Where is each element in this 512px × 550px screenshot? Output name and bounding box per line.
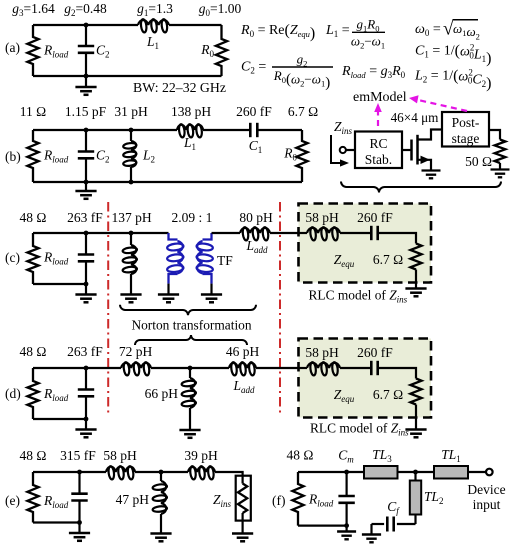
capacitor Cf row f — [372, 517, 416, 532]
capacitor Cm row f — [338, 472, 354, 526]
ground row a — [75, 76, 96, 95]
value labels row b — [20, 104, 318, 119]
TL2 transmission line — [410, 472, 421, 524]
ground row c box — [405, 289, 426, 297]
capacitor 263fF row c — [78, 233, 94, 284]
nodes row f — [344, 470, 418, 528]
svg-text:(b): (b) — [5, 149, 21, 164]
ground TF primary — [158, 284, 179, 303]
svg-text:TF: TF — [217, 253, 233, 268]
Zins probe arrow — [331, 135, 349, 167]
resistor R0 row a — [216, 25, 227, 76]
svg-text:260 fF: 260 fF — [236, 104, 272, 119]
equation C2 — [241, 52, 333, 92]
svg-text:(f): (f) — [272, 493, 286, 508]
svg-text:260 fF: 260 fF — [357, 210, 393, 225]
inductor 39pH row e — [188, 466, 215, 480]
svg-text:Post-: Post- — [452, 115, 480, 130]
inductor L2 row b shunt — [123, 130, 137, 182]
label (d) — [5, 386, 21, 401]
resistor Rload row c — [27, 233, 38, 284]
brace under row c (Norton) — [120, 305, 256, 315]
svg-text:48 Ω: 48 Ω — [287, 448, 314, 463]
svg-text:g0=1.00: g0=1.00 — [199, 1, 242, 18]
value labels row d — [20, 344, 260, 359]
label 50ohm — [465, 154, 492, 169]
device input terminal — [486, 469, 493, 476]
labels in box row c — [305, 210, 393, 225]
svg-text:58 pH: 58 pH — [305, 345, 339, 360]
transformer TF secondary — [196, 233, 213, 284]
nodes row c — [84, 231, 134, 287]
capacitor C2 row a — [78, 25, 94, 76]
capacitor C1 row b — [250, 123, 257, 137]
svg-text:66 pH: 66 pH — [145, 386, 179, 401]
equation L2 — [414, 68, 491, 92]
label 47pH row e — [116, 492, 150, 507]
inductor Ladd row c — [240, 227, 270, 241]
label Ladd row c — [245, 238, 268, 255]
wire cap to res row d — [378, 368, 416, 379]
RC Stab box — [355, 132, 402, 169]
equation R0 — [240, 22, 315, 42]
inductor 66pH shunt row d — [181, 368, 196, 430]
label Zequ row c — [334, 252, 355, 269]
label C1 row b — [249, 138, 263, 155]
label Zins row b — [334, 119, 353, 136]
capacitor 260fF row c — [371, 226, 377, 240]
label Ladd row d — [232, 378, 255, 395]
value labels row e — [20, 448, 218, 463]
label TF — [217, 253, 233, 268]
ground row d box — [405, 430, 426, 438]
svg-text:58 pH: 58 pH — [305, 210, 339, 225]
svg-text:1.15 pF: 1.15 pF — [65, 104, 107, 119]
wire top row a — [33, 24, 222, 26]
wire coil to cap row d — [340, 367, 371, 369]
svg-text:6.7 Ω: 6.7 Ω — [373, 387, 403, 402]
label Rload row b — [43, 148, 69, 165]
label 46x4um — [391, 110, 440, 125]
svg-text:RLC model of Zins: RLC model of Zins — [310, 421, 409, 438]
svg-text:11 Ω: 11 Ω — [20, 104, 46, 119]
RC Stab text — [365, 136, 392, 167]
red dashdot line left — [107, 202, 109, 416]
inductor 58pH row d — [307, 362, 340, 376]
resistor Rload row d — [27, 368, 38, 419]
label L2 row b — [142, 148, 155, 165]
label R0 row a — [200, 42, 214, 59]
inductor 47pH shunt row e — [152, 472, 167, 534]
capacitor 263fF row d — [78, 368, 94, 419]
svg-text:RC: RC — [369, 136, 387, 151]
svg-text:137 pH: 137 pH — [111, 210, 151, 225]
svg-text:Device: Device — [467, 482, 505, 497]
label (b) — [5, 149, 21, 164]
label RLC model row d — [310, 421, 409, 438]
wire bottom row a — [33, 75, 222, 77]
wire bottom row d — [33, 418, 86, 420]
label Rload row f — [308, 492, 334, 509]
label Rload row d — [43, 386, 69, 403]
value labels row f — [287, 447, 461, 465]
svg-text:315 fF: 315 fF — [60, 448, 96, 463]
wire row c to box — [270, 232, 299, 234]
svg-text:BW: 22–32 GHz: BW: 22–32 GHz — [133, 80, 226, 95]
wire in box row c — [299, 232, 308, 234]
svg-text:260 fF: 260 fF — [357, 345, 393, 360]
ground 66pH — [179, 430, 200, 438]
svg-text:g3=1.64: g3=1.64 — [12, 1, 55, 18]
svg-text:48 Ω: 48 Ω — [20, 448, 47, 463]
inductor 58pH row c — [307, 227, 340, 241]
nodes row b — [84, 128, 134, 185]
wire res to ground row c — [415, 270, 417, 289]
resistor Rload row b — [27, 130, 38, 182]
svg-text:48 Ω: 48 Ω — [20, 210, 47, 225]
svg-text:6.7 Ω: 6.7 Ω — [288, 104, 318, 119]
capacitor 260fF row d — [371, 361, 377, 375]
svg-text:g1=1.3: g1=1.3 — [137, 1, 173, 18]
wire bottom row c — [33, 283, 86, 285]
svg-text:58 pH: 58 pH — [103, 448, 137, 463]
nodes row e — [77, 470, 163, 525]
value labels row c — [20, 210, 273, 225]
label Rload row c — [43, 250, 69, 267]
ground Zins row e — [232, 521, 253, 542]
svg-text:Norton transformation: Norton transformation — [131, 318, 251, 333]
resistor 50ohm — [495, 140, 506, 164]
wire top row e — [33, 472, 243, 476]
magenta arrow vertical — [374, 103, 382, 126]
wire post-stage to 50ohm — [489, 130, 500, 140]
magenta arrow diagonal — [409, 95, 467, 111]
wire top row d — [33, 367, 299, 369]
transistor M1 channel — [416, 135, 419, 165]
svg-text:stage: stage — [452, 131, 480, 146]
wire top row b — [33, 129, 302, 131]
label (f) — [272, 493, 286, 508]
svg-text:(d): (d) — [5, 386, 21, 401]
node row a bottom — [84, 74, 89, 79]
label Norton transformation — [131, 318, 251, 333]
ground 137pH — [120, 295, 141, 303]
equation C1 — [415, 43, 491, 67]
label (c) — [5, 250, 20, 265]
svg-text:31 pH: 31 pH — [114, 104, 148, 119]
capacitor 315fF row e — [71, 472, 87, 523]
red dashdot line right — [279, 202, 281, 416]
resistor Rload row e — [27, 472, 38, 523]
transformer TF primary — [167, 233, 184, 284]
svg-text:input: input — [473, 497, 501, 512]
svg-text:80 pH: 80 pH — [239, 210, 273, 225]
transistor M1 source — [418, 156, 432, 170]
label L1 row a — [146, 34, 159, 51]
label Cf — [387, 499, 400, 516]
svg-text:(a): (a) — [5, 40, 20, 55]
wire top row c — [33, 232, 169, 234]
Post-stage box — [442, 112, 489, 147]
TL1 transmission line — [434, 466, 468, 479]
svg-text:Stab.: Stab. — [365, 152, 392, 167]
svg-text:6.7 Ω: 6.7 Ω — [373, 252, 403, 267]
equation Rload — [341, 64, 406, 80]
label Rload row a — [43, 43, 69, 60]
brace over row d (Norton) — [135, 335, 247, 345]
label 6.7ohm row d — [373, 387, 403, 402]
RLC dashed box row c — [299, 204, 432, 283]
RLC dashed box row d — [299, 339, 432, 418]
inductor 72pH row d — [121, 362, 151, 376]
ground TF secondary — [201, 284, 222, 303]
Post-stage text — [452, 115, 480, 146]
label C2 row b — [96, 148, 110, 165]
svg-text:263 fF: 263 fF — [67, 210, 103, 225]
brace under emModel block — [341, 182, 501, 193]
svg-text:138 pH: 138 pH — [171, 104, 211, 119]
svg-text:ω2−ω1: ω2−ω1 — [351, 33, 385, 50]
node row a top — [84, 23, 89, 28]
ground 50ohm — [491, 163, 510, 177]
svg-text:48 Ω: 48 Ω — [20, 344, 47, 359]
nodes row d — [84, 366, 193, 422]
label R0 row b — [283, 146, 297, 163]
svg-text:263 fF: 263 fF — [67, 344, 103, 359]
svg-text:g2=0.48: g2=0.48 — [64, 1, 107, 18]
svg-text:(e): (e) — [5, 493, 20, 508]
inductor 46pH row d — [229, 362, 256, 376]
ground row c load — [75, 284, 96, 302]
ground transistor source — [422, 170, 441, 178]
label Zins row e — [213, 492, 232, 509]
label L1 row b — [183, 135, 196, 152]
svg-text:46 pH: 46 pH — [226, 344, 260, 359]
svg-text:39 pH: 39 pH — [184, 448, 218, 463]
resistor 6.7ohm row c — [410, 244, 421, 270]
wire bottom row f — [298, 524, 347, 526]
equation L1 — [325, 17, 385, 51]
wire coil to cap row c — [340, 232, 371, 234]
inductor 58pH row e — [106, 466, 135, 480]
resistor Rload row a — [27, 25, 38, 76]
svg-text:50 Ω: 50 Ω — [465, 154, 492, 169]
label RLC model row c — [309, 288, 408, 305]
svg-text:72 pH: 72 pH — [119, 344, 153, 359]
inductor L1 row b — [177, 124, 203, 138]
label Rload row e — [43, 493, 69, 510]
svg-text:2.09 : 1: 2.09 : 1 — [172, 210, 213, 225]
equation omega0 — [415, 18, 480, 41]
wire res to ground row d — [415, 405, 417, 430]
label 66pH row d — [145, 386, 179, 401]
transistor M1 gate — [402, 140, 412, 161]
Zins box row e — [236, 476, 251, 521]
label TL2 — [424, 489, 444, 506]
g-parameter labels g3 g2 g1 g0 — [12, 1, 241, 18]
transistor M1 drain — [418, 130, 443, 140]
resistor 6.7ohm row d — [410, 379, 421, 405]
ground row e load — [69, 523, 90, 541]
ground Cf — [362, 524, 381, 542]
svg-text:RLC model of Zins: RLC model of Zins — [309, 288, 408, 305]
TL3 transmission line — [364, 466, 398, 479]
wire top row f — [298, 471, 486, 473]
wire in box row d — [299, 367, 308, 369]
svg-text:L1 =: L1 = — [325, 23, 350, 39]
resistor R0 row b — [296, 130, 307, 182]
svg-text:47 pH: 47 pH — [116, 492, 150, 507]
wire terminal to RC box — [346, 149, 355, 151]
ground 47pH — [150, 534, 171, 542]
label Zequ row d — [334, 387, 355, 404]
wire row c mid — [212, 232, 241, 234]
inductor L1 row a — [138, 19, 169, 33]
svg-text:emModel: emModel — [353, 90, 407, 105]
label emModel — [353, 90, 407, 105]
label (e) — [5, 493, 20, 508]
wire bottom row b — [33, 181, 302, 183]
labels in box row d — [305, 345, 393, 360]
label C2 row a — [96, 43, 110, 60]
label BW — [133, 80, 226, 95]
wire bottom row e — [33, 521, 80, 523]
input terminal circle — [340, 147, 346, 153]
label (a) — [5, 40, 20, 55]
svg-text:46×4 μm: 46×4 μm — [391, 110, 440, 125]
ground row b — [75, 182, 96, 199]
ground row f load — [337, 526, 356, 540]
label Device input — [467, 482, 505, 512]
ground row d load — [75, 419, 96, 437]
label 6.7ohm row c — [373, 252, 403, 267]
capacitor C2 row b — [78, 130, 94, 182]
wire cap to res row c — [378, 233, 416, 244]
inductor 137pH shunt — [122, 233, 137, 295]
resistor Rload row f — [292, 472, 303, 526]
svg-text:(c): (c) — [5, 250, 20, 265]
